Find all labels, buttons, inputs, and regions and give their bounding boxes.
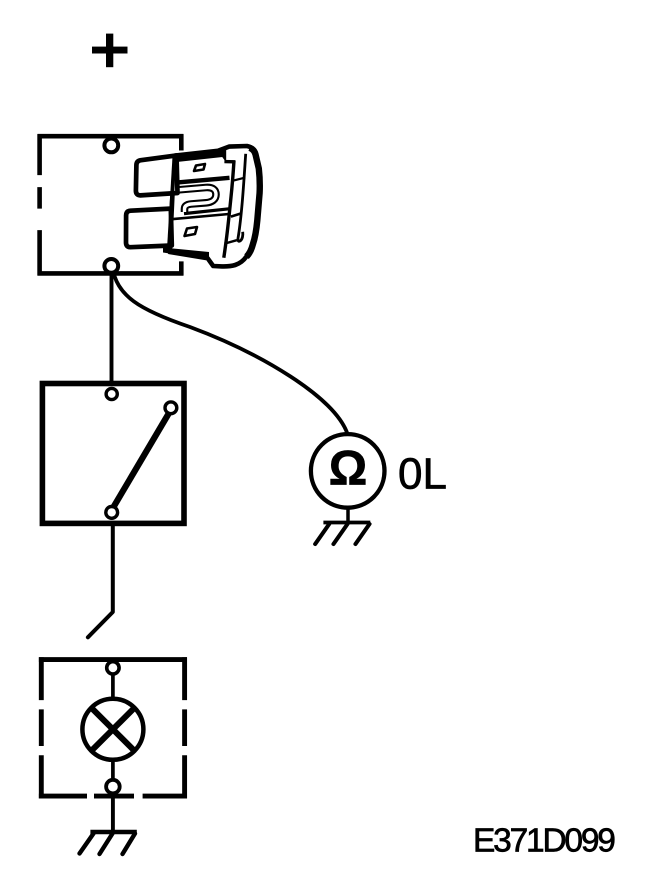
fuse window bottom double line xyxy=(184,209,229,214)
fuse element (S shaped ribbon) xyxy=(177,187,217,212)
switch terminal right xyxy=(165,402,177,414)
fuse top corner junction blob xyxy=(219,147,226,163)
fuse front/side divider line xyxy=(224,161,234,258)
fuse bottom thick band xyxy=(163,248,209,260)
lamp terminal bottom xyxy=(106,780,120,794)
fuse body outline xyxy=(170,146,260,266)
lamp box (dashed connector outline) xyxy=(39,657,187,798)
battery positive terminal symbol + xyxy=(92,34,128,68)
lamp L (circle with cross) xyxy=(82,699,143,760)
fuse box terminal bottom xyxy=(104,259,118,273)
fuse F (blade fuse illustration) xyxy=(126,146,260,266)
switch blade xyxy=(114,413,170,507)
wire fuse box to switch box xyxy=(110,266,114,390)
wire lamp top xyxy=(111,672,115,700)
ground symbol below ohmmeter xyxy=(315,506,370,544)
svg-text:E371D099: E371D099 xyxy=(473,823,615,860)
fuse right edge overdraw xyxy=(247,148,260,257)
svg-text:Ω: Ω xyxy=(329,443,367,496)
fuse window top line xyxy=(176,178,229,183)
wire lamp to ground xyxy=(111,790,115,832)
fuse side crossing line upper xyxy=(233,178,245,181)
ground symbol below lamp xyxy=(80,832,137,854)
fuse molded mark upper xyxy=(194,164,205,171)
switch terminal bottom xyxy=(106,507,118,519)
fuse blade terminal upper xyxy=(136,155,178,195)
fuse blade terminal lower xyxy=(126,209,172,248)
wire curved to ohmmeter xyxy=(112,266,347,434)
fuse side crossing line lower xyxy=(225,240,237,243)
wire switch to open contact xyxy=(88,526,113,637)
fuse box terminal top xyxy=(104,139,118,153)
switch terminal top xyxy=(106,388,117,399)
fuse side crossing line mid xyxy=(231,213,242,216)
fuse corner notch bottom line xyxy=(224,160,235,164)
wire lamp bottom xyxy=(111,759,115,784)
fuse box (dashed connector outline) xyxy=(38,134,184,275)
fuse front top thick edge xyxy=(177,154,225,159)
fuse side inner edge line with hook xyxy=(238,154,246,241)
fuse body left edge line xyxy=(169,156,175,252)
fuse molded mark lower xyxy=(185,227,198,236)
ohmmeter circle xyxy=(311,434,385,508)
lamp terminal top xyxy=(107,662,119,674)
svg-text:0L: 0L xyxy=(398,450,447,499)
switch box xyxy=(42,384,184,524)
